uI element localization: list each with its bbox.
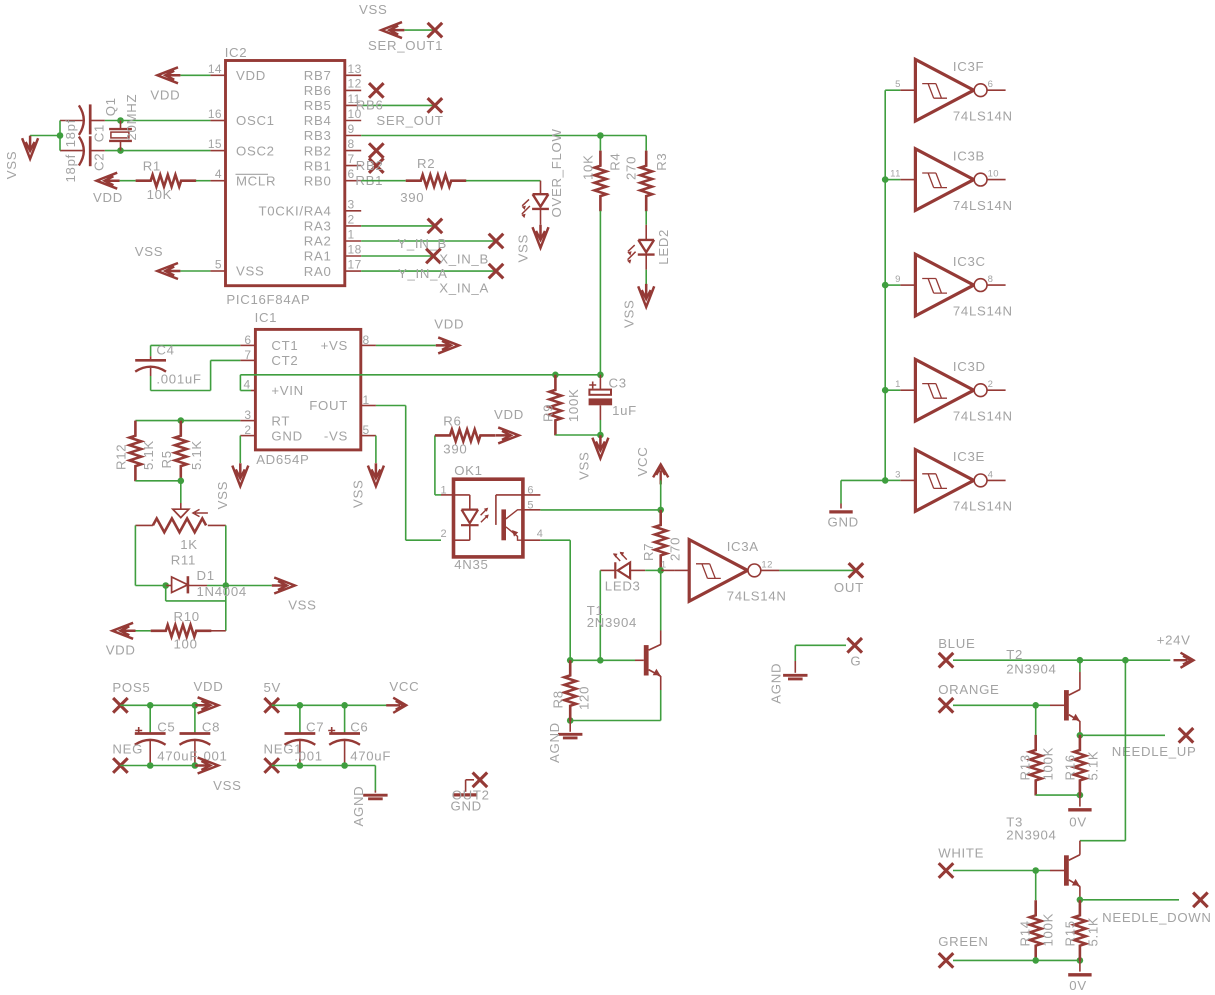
svg-text:7: 7 [348,152,355,166]
svg-text:74LS14N: 74LS14N [953,198,1013,213]
svg-text:C1: C1 [91,124,106,142]
svg-text:2N3904: 2N3904 [1006,827,1056,842]
svg-text:VCC: VCC [389,679,419,694]
svg-text:15: 15 [208,137,222,151]
svg-text:470uF: 470uF [157,748,198,763]
svg-text:R7: R7 [641,543,656,561]
svg-text:X_IN_B: X_IN_B [439,251,489,266]
svg-text:R4: R4 [608,153,623,171]
svg-text:2: 2 [348,212,355,226]
svg-text:4: 4 [988,469,994,480]
svg-text:D1: D1 [197,568,215,583]
svg-text:BLUE: BLUE [938,636,975,651]
svg-text:IC3D: IC3D [953,359,986,374]
svg-text:16: 16 [208,107,222,121]
svg-text:NEG: NEG [112,742,143,757]
svg-text:OK1: OK1 [454,463,483,478]
svg-text:8: 8 [988,274,994,285]
svg-text:R8: R8 [551,690,566,708]
svg-text:5: 5 [527,499,534,511]
svg-text:6: 6 [527,484,534,496]
svg-text:13: 13 [348,62,362,76]
svg-text:OVER_FLOW: OVER_FLOW [549,128,564,217]
svg-text:WHITE: WHITE [938,846,984,861]
svg-text:4: 4 [537,528,544,540]
svg-text:390: 390 [400,190,424,205]
svg-text:RB5: RB5 [304,98,332,113]
svg-text:GREEN: GREEN [938,934,988,949]
svg-text:18: 18 [348,243,362,257]
svg-text:IC3E: IC3E [953,449,985,464]
svg-text:11: 11 [890,169,901,180]
svg-text:VSS: VSS [351,480,366,509]
svg-text:74LS14N: 74LS14N [953,303,1013,318]
svg-text:IC3C: IC3C [953,254,986,269]
svg-text:2N3904: 2N3904 [587,615,637,630]
svg-text:C7: C7 [306,719,324,734]
svg-text:MCLR: MCLR [236,173,276,188]
svg-text:0V: 0V [1069,978,1087,993]
svg-text:GND: GND [828,515,859,530]
svg-text:.001uF: .001uF [156,372,201,387]
svg-text:-VS: -VS [324,428,348,443]
svg-text:10: 10 [988,169,999,180]
svg-text:LED3: LED3 [605,579,641,594]
svg-text:1K: 1K [180,537,198,552]
svg-text:+VIN: +VIN [271,383,304,398]
svg-text:14: 14 [208,62,222,76]
svg-text:1uF: 1uF [612,403,637,418]
svg-text:VDD: VDD [194,679,224,694]
svg-text:FOUT: FOUT [309,398,348,413]
svg-text:74LS14N: 74LS14N [953,499,1013,514]
svg-text:5.1K: 5.1K [1085,751,1100,781]
svg-text:C8: C8 [202,719,220,734]
svg-text:4: 4 [244,378,251,392]
svg-text:CT1: CT1 [271,338,298,353]
svg-text:390: 390 [443,441,467,456]
svg-text:VSS: VSS [359,2,388,17]
svg-text:1: 1 [348,228,355,242]
svg-text:VSS: VSS [577,452,592,481]
svg-text:3: 3 [348,197,355,211]
svg-text:R12: R12 [114,444,129,470]
svg-text:6: 6 [244,333,251,347]
svg-text:T2: T2 [1006,647,1023,662]
svg-text:18pf: 18pf [63,154,78,182]
svg-text:R9: R9 [541,404,556,422]
svg-text:100K: 100K [1040,747,1055,781]
svg-text:VDD: VDD [150,87,180,102]
svg-text:R11: R11 [171,553,196,568]
svg-text:RA3: RA3 [304,219,332,234]
svg-text:5: 5 [895,79,901,90]
svg-text:C3: C3 [609,376,627,391]
svg-text:5.1K: 5.1K [1085,917,1100,947]
svg-text:C6: C6 [350,719,368,734]
svg-text:Q1: Q1 [103,97,118,116]
svg-text:RB6: RB6 [304,83,332,98]
svg-text:RB4: RB4 [304,113,332,128]
svg-text:100K: 100K [566,388,581,422]
svg-text:2: 2 [440,528,447,540]
svg-text:VSS: VSS [215,481,230,510]
svg-text:R16: R16 [1062,754,1077,780]
svg-text:NEEDLE_UP: NEEDLE_UP [1112,744,1197,759]
svg-text:X_IN_A: X_IN_A [439,281,489,296]
svg-text:VSS: VSS [236,264,265,279]
svg-text:1: 1 [440,484,447,496]
svg-text:+VS: +VS [321,338,348,353]
svg-text:1: 1 [895,379,901,390]
svg-text:3: 3 [895,469,901,480]
svg-text:2: 2 [244,423,251,437]
svg-text:5.1K: 5.1K [141,440,156,470]
svg-text:74LS14N: 74LS14N [727,589,787,604]
svg-text:VCC: VCC [635,447,650,477]
svg-text:C5: C5 [157,719,175,734]
svg-text:NEG1: NEG1 [264,742,303,757]
svg-text:12: 12 [348,77,362,91]
svg-text:IC1: IC1 [255,310,278,325]
svg-text:SER_OUT1: SER_OUT1 [368,38,443,53]
svg-text:IC2: IC2 [225,45,248,60]
svg-text:RA1: RA1 [304,249,332,264]
svg-text:RB6: RB6 [356,98,384,113]
svg-text:470uF: 470uF [350,748,391,763]
svg-text:74LS14N: 74LS14N [953,108,1013,123]
svg-text:AGND: AGND [351,786,366,827]
svg-text:8: 8 [363,333,370,347]
svg-text:RA2: RA2 [304,234,332,249]
svg-text:PIC16F84AP: PIC16F84AP [226,292,310,307]
svg-text:R10: R10 [174,609,200,624]
svg-text:T0CKI/RA4: T0CKI/RA4 [259,204,332,219]
svg-text:270: 270 [624,156,639,180]
svg-text:2: 2 [988,379,994,390]
svg-text:Y_IN_A: Y_IN_A [398,266,448,281]
svg-text:VDD: VDD [434,316,464,331]
svg-text:POS5: POS5 [112,680,150,695]
svg-text:9: 9 [895,274,901,285]
svg-text:LED2: LED2 [656,229,671,265]
svg-text:R15: R15 [1062,920,1077,946]
svg-text:RB1: RB1 [304,158,332,173]
svg-text:RB0: RB0 [304,173,332,188]
svg-text:R13: R13 [1017,754,1032,780]
svg-text:R1: R1 [143,158,161,173]
svg-text:RB2: RB2 [356,158,384,173]
svg-text:VSS: VSS [135,244,164,259]
svg-text:100: 100 [174,637,198,652]
svg-text:VSS: VSS [516,234,531,263]
svg-text:C2: C2 [91,153,106,171]
svg-text:C4: C4 [156,343,174,358]
svg-text:RB3: RB3 [304,128,332,143]
svg-text:VSS: VSS [622,300,637,329]
svg-text:17: 17 [348,258,362,272]
svg-text:R6: R6 [443,413,461,428]
svg-text:4N35: 4N35 [454,557,488,572]
svg-text:5.1K: 5.1K [189,440,204,470]
svg-text:5V: 5V [264,680,282,695]
svg-text:OSC1: OSC1 [236,113,275,128]
svg-text:CT2: CT2 [271,353,298,368]
svg-text:10K: 10K [580,154,595,180]
svg-text:7: 7 [244,348,251,362]
svg-text:SER_OUT: SER_OUT [376,113,443,128]
svg-text:AGND: AGND [547,722,562,763]
svg-text:6: 6 [988,79,994,90]
svg-text:VDD: VDD [106,642,136,657]
svg-text:12: 12 [761,559,772,570]
svg-text:IC3B: IC3B [953,148,985,163]
svg-text:RA0: RA0 [304,264,332,279]
svg-text:VSS: VSS [4,151,19,180]
svg-text:VSS: VSS [288,597,317,612]
svg-text:R3: R3 [654,153,669,171]
svg-text:VDD: VDD [236,68,266,83]
svg-text:0V: 0V [1069,814,1087,829]
svg-text:NEEDLE_DOWN: NEEDLE_DOWN [1102,910,1212,925]
svg-text:3: 3 [244,408,251,422]
svg-text:R5: R5 [159,450,174,468]
svg-text:GND: GND [271,428,302,443]
svg-text:8: 8 [348,137,355,151]
svg-text:18pf: 18pf [63,119,78,147]
svg-text:OSC2: OSC2 [236,143,275,158]
svg-text:120: 120 [577,686,592,710]
svg-text:+24V: +24V [1157,632,1191,647]
svg-text:2N3904: 2N3904 [1006,661,1056,676]
svg-text:R2: R2 [417,156,435,171]
svg-text:100K: 100K [1040,913,1055,947]
svg-text:VDD: VDD [93,190,123,205]
svg-text:VDD: VDD [494,407,524,422]
svg-text:ORANGE: ORANGE [938,682,999,697]
svg-text:10K: 10K [147,187,173,202]
svg-text:OUT: OUT [834,580,864,595]
svg-text:R14: R14 [1017,920,1032,946]
svg-text:AD654P: AD654P [256,452,309,467]
svg-text:RB7: RB7 [304,68,332,83]
svg-text:RT: RT [271,413,290,428]
svg-text:5: 5 [215,258,222,272]
svg-text:IC3F: IC3F [953,59,984,74]
svg-text:20MHZ: 20MHZ [124,94,139,141]
svg-text:6: 6 [348,167,355,181]
svg-text:IC3A: IC3A [727,539,759,554]
svg-text:1: 1 [661,559,667,570]
svg-text:4: 4 [215,167,222,181]
svg-text:RB2: RB2 [304,143,332,158]
svg-text:74LS14N: 74LS14N [953,408,1013,423]
svg-text:9: 9 [348,122,355,136]
svg-text:GND: GND [451,798,482,813]
svg-text:270: 270 [667,537,682,561]
svg-text:5: 5 [363,423,370,437]
svg-text:G: G [850,654,861,669]
svg-text:VSS: VSS [213,778,242,793]
svg-text:1: 1 [363,393,370,407]
svg-text:AGND: AGND [769,663,784,704]
